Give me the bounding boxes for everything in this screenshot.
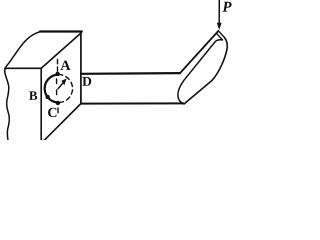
svg-text:B: B [29, 88, 38, 103]
svg-text:D: D [82, 74, 92, 89]
svg-text:C: C [47, 106, 57, 121]
svg-text:P: P [222, 0, 232, 16]
svg-text:A: A [60, 58, 71, 74]
